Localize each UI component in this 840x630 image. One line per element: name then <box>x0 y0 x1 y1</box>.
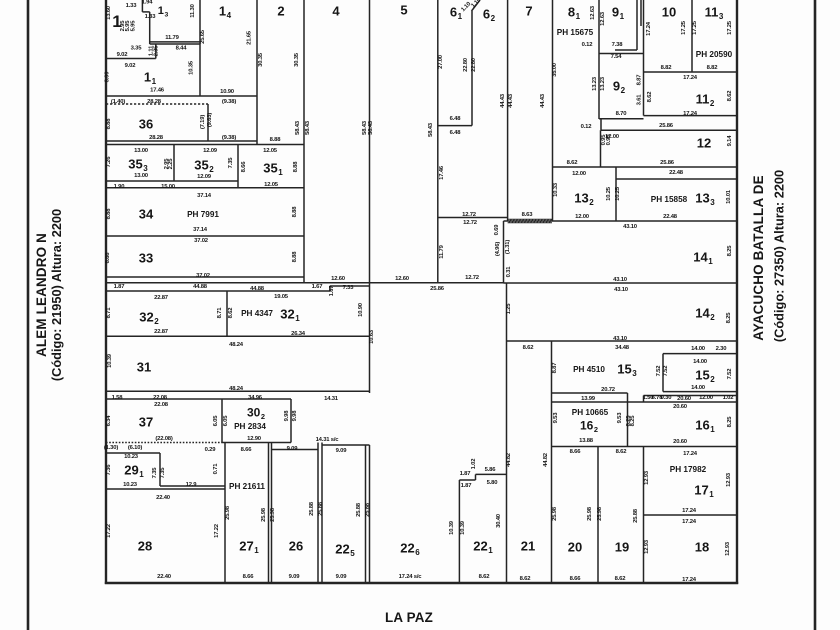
lot line 15_3 bottom <box>552 392 628 394</box>
lot line 9.02 <box>106 58 156 60</box>
svg-text:7.52: 7.52 <box>656 365 662 377</box>
svg-text:8.25: 8.25 <box>630 415 636 427</box>
svg-text:17.24: 17.24 <box>682 519 697 525</box>
svg-text:12.93: 12.93 <box>644 470 650 485</box>
svg-text:13.23: 13.23 <box>600 76 606 91</box>
svg-text:25.88: 25.88 <box>633 508 639 523</box>
svg-text:17.24: 17.24 <box>682 577 697 583</box>
svg-text:13.23: 13.23 <box>592 76 598 91</box>
lot line 35_2/35_1 v <box>237 145 239 189</box>
svg-text:10.23: 10.23 <box>124 454 139 460</box>
svg-text:12.93: 12.93 <box>726 472 732 487</box>
svg-text:8.00: 8.00 <box>105 71 111 83</box>
lot line 27/26 v b <box>271 443 273 584</box>
svg-text:8.88: 8.88 <box>270 137 282 143</box>
lot line 19/18 v <box>643 447 645 584</box>
svg-text:17.25: 17.25 <box>692 20 698 35</box>
svg-text:12.72: 12.72 <box>462 212 477 218</box>
lot line 13_3 top <box>616 178 737 180</box>
lot line 11.79 <box>150 41 200 43</box>
svg-text:12.60: 12.60 <box>395 276 410 282</box>
svg-text:5.80: 5.80 <box>487 480 499 486</box>
svg-text:8.88: 8.88 <box>106 118 112 130</box>
svg-text:12.90: 12.90 <box>247 436 262 442</box>
svg-text:2: 2 <box>277 4 284 19</box>
svg-text:58.43: 58.43 <box>368 120 374 135</box>
svg-text:10.35: 10.35 <box>189 60 195 75</box>
svg-text:8.88: 8.88 <box>292 206 298 218</box>
svg-text:8.63: 8.63 <box>522 212 534 218</box>
lot line 37 bottom dotted <box>106 442 222 444</box>
svg-text:(4.96): (4.96) <box>495 242 501 256</box>
svg-text:9.98: 9.98 <box>284 410 290 422</box>
lot line 12.72 h <box>438 217 508 219</box>
svg-text:8.25: 8.25 <box>726 312 732 324</box>
svg-text:8.62: 8.62 <box>616 449 628 455</box>
svg-text:0.30: 0.30 <box>661 395 673 401</box>
svg-text:0.29: 0.29 <box>205 447 217 453</box>
svg-text:8.62: 8.62 <box>727 90 733 102</box>
svg-text:7.26: 7.26 <box>106 156 112 168</box>
svg-text:37.02: 37.02 <box>196 273 211 279</box>
lot line 16_1 sliver top <box>644 395 738 397</box>
svg-text:12.9: 12.9 <box>186 482 198 488</box>
svg-text:1.90: 1.90 <box>114 184 126 190</box>
lot line sliver bottom right <box>330 285 370 287</box>
svg-text:1.33: 1.33 <box>145 14 157 20</box>
svg-text:(Código: 21950) Altura: 2200: (Código: 21950) Altura: 2200 <box>49 209 64 381</box>
svg-text:12.93: 12.93 <box>725 541 731 556</box>
svg-text:AYACUCHO BATALLA DE: AYACUCHO BATALLA DE <box>751 175 766 341</box>
svg-text:8.66: 8.66 <box>241 447 253 453</box>
lot line 10/11 v <box>691 0 693 72</box>
svg-text:12.60: 12.60 <box>331 276 346 282</box>
lot line 37 top <box>106 398 291 400</box>
svg-text:9.09: 9.09 <box>289 574 301 580</box>
svg-text:9.53: 9.53 <box>617 412 623 424</box>
svg-text:17.24 s/c: 17.24 s/c <box>399 574 423 580</box>
lot line 33 bottom <box>106 276 304 278</box>
svg-text:PH 4510: PH 4510 <box>573 365 605 374</box>
svg-text:22.08: 22.08 <box>153 395 168 401</box>
svg-text:25.98: 25.98 <box>597 506 603 521</box>
svg-text:8.88: 8.88 <box>292 251 298 263</box>
lot line 28/27 v <box>224 443 226 584</box>
lot line 2/4 v <box>303 0 305 283</box>
lot line 28 top <box>106 488 225 490</box>
svg-text:1.02: 1.02 <box>471 458 477 470</box>
lot line 37/30_2 v <box>221 399 223 443</box>
lot line 20/19 v <box>597 447 599 584</box>
svg-text:17.22: 17.22 <box>106 523 112 538</box>
svg-text:25.98: 25.98 <box>270 507 276 522</box>
svg-text:7.35: 7.35 <box>228 157 234 169</box>
lot line 13 bottom / 14_1 top <box>504 220 738 222</box>
svg-text:8.62: 8.62 <box>523 345 535 351</box>
lot line 12.9 h <box>160 485 225 487</box>
svg-text:35.00: 35.00 <box>552 62 558 77</box>
svg-text:8.25: 8.25 <box>727 416 733 428</box>
svg-text:30.35: 30.35 <box>258 52 264 67</box>
svg-text:0.12: 0.12 <box>581 124 593 130</box>
svg-text:8.25: 8.25 <box>727 245 733 257</box>
lot line 17_1/18 h <box>644 514 738 516</box>
svg-text:25.98: 25.98 <box>587 506 593 521</box>
svg-text:PH 7991: PH 7991 <box>187 210 219 219</box>
svg-text:(9.63): (9.63) <box>207 113 213 127</box>
svg-text:(1.31): (1.31) <box>505 240 511 254</box>
svg-text:25.98: 25.98 <box>225 505 231 520</box>
svg-text:37: 37 <box>139 415 153 430</box>
lot line 6_2/7 v <box>507 0 509 221</box>
svg-text:(22.08): (22.08) <box>155 436 173 442</box>
svg-text:2.35: 2.35 <box>154 45 160 57</box>
lot line corridor v short <box>643 396 645 403</box>
svg-text:6.05: 6.05 <box>213 415 219 427</box>
svg-text:10.39: 10.39 <box>107 353 113 368</box>
svg-text:7.35: 7.35 <box>152 467 158 479</box>
block border bottom <box>105 582 738 585</box>
svg-text:25.86: 25.86 <box>430 286 445 292</box>
lot line 13_2/13_3 v <box>615 167 617 221</box>
svg-text:8.82: 8.82 <box>661 65 673 71</box>
svg-text:0.31: 0.31 <box>506 266 512 278</box>
svg-text:48.24: 48.24 <box>229 342 244 348</box>
svg-text:1.25: 1.25 <box>506 303 512 315</box>
svg-text:37.14: 37.14 <box>193 227 208 233</box>
svg-text:25.86: 25.86 <box>659 123 674 129</box>
svg-text:12.00: 12.00 <box>605 134 620 140</box>
lot line 6 diagonal <box>472 0 481 11</box>
svg-text:33: 33 <box>139 251 153 266</box>
svg-text:1.87: 1.87 <box>461 483 473 489</box>
lot line parcel 1 step v <box>141 0 143 12</box>
lot line parcel 12 left v <box>600 130 602 167</box>
svg-text:14.00: 14.00 <box>693 359 708 365</box>
lot line 11_2 bottom <box>644 115 738 117</box>
svg-text:5: 5 <box>400 3 407 18</box>
svg-text:26.34: 26.34 <box>291 331 306 337</box>
lot line 11_2 top <box>644 71 738 73</box>
lot line 22_5/22_6 v a <box>365 445 367 583</box>
lot line parcel 36 right <box>207 104 209 141</box>
svg-text:17.25: 17.25 <box>727 20 733 35</box>
svg-text:17.24: 17.24 <box>682 508 697 514</box>
svg-text:10.63: 10.63 <box>369 329 375 344</box>
svg-text:8.88: 8.88 <box>293 161 299 173</box>
svg-text:1.87: 1.87 <box>460 471 472 477</box>
svg-text:48.24: 48.24 <box>229 386 244 392</box>
lot line parcel 1/1_3 v <box>149 12 151 44</box>
svg-text:7.35: 7.35 <box>160 467 166 479</box>
svg-text:9.09: 9.09 <box>287 446 299 452</box>
lot line 32 bottom / 31 top <box>106 335 370 337</box>
svg-text:7.52: 7.52 <box>663 365 669 377</box>
svg-text:17.24: 17.24 <box>683 111 698 117</box>
lot line 30_2 bottom <box>222 442 291 444</box>
lot line 15_2 left v <box>662 354 664 392</box>
svg-text:30.40: 30.40 <box>496 513 502 528</box>
svg-text:8.44: 8.44 <box>176 46 188 52</box>
svg-text:25.98: 25.98 <box>552 506 558 521</box>
svg-text:7.36: 7.36 <box>106 464 112 476</box>
lot line 22/21 v <box>506 283 508 583</box>
svg-text:10.39: 10.39 <box>460 520 466 535</box>
lot line 1_4/2 v <box>256 0 258 145</box>
svg-text:17.25: 17.25 <box>681 20 687 35</box>
svg-text:(1.30): (1.30) <box>104 445 118 451</box>
svg-text:5.86: 5.86 <box>485 467 497 473</box>
lot line 35 bottom left <box>106 180 238 182</box>
lot line 22_4/22_1 v <box>458 480 460 583</box>
svg-text:10.90: 10.90 <box>358 302 364 317</box>
svg-text:8.66: 8.66 <box>243 574 255 580</box>
svg-text:20.60: 20.60 <box>673 404 688 410</box>
svg-text:22.48: 22.48 <box>663 214 678 220</box>
svg-text:37.14: 37.14 <box>197 193 212 199</box>
svg-text:0.12: 0.12 <box>582 42 594 48</box>
svg-text:14.31 s/c: 14.31 s/c <box>316 437 340 443</box>
svg-text:20.60: 20.60 <box>673 439 688 445</box>
svg-text:14.31: 14.31 <box>324 396 339 402</box>
svg-text:6.48: 6.48 <box>450 130 462 136</box>
svg-text:12.05: 12.05 <box>263 148 278 154</box>
svg-text:12.72: 12.72 <box>463 220 478 226</box>
lot line corridor v <box>640 0 642 26</box>
svg-text:6.48: 6.48 <box>450 116 462 122</box>
svg-text:12.72: 12.72 <box>465 275 480 281</box>
street line right <box>814 0 817 630</box>
svg-text:20: 20 <box>568 540 582 555</box>
lot line parcel 36 top <box>106 103 208 105</box>
svg-text:34.48: 34.48 <box>615 345 630 351</box>
svg-text:58.43: 58.43 <box>295 120 301 135</box>
svg-text:7.52: 7.52 <box>727 368 733 380</box>
svg-text:PH 15858: PH 15858 <box>651 195 688 204</box>
lot line 6.48 jog <box>438 125 472 127</box>
lot line notch h low <box>459 479 475 481</box>
svg-text:12.63: 12.63 <box>600 11 606 26</box>
svg-text:22.48: 22.48 <box>669 170 684 176</box>
svg-text:44.88: 44.88 <box>193 284 208 290</box>
svg-text:12.93: 12.93 <box>644 539 650 554</box>
svg-text:7.38: 7.38 <box>612 42 624 48</box>
svg-text:(9.38): (9.38) <box>222 99 236 105</box>
svg-text:22.40: 22.40 <box>157 574 172 580</box>
lot line sliver top <box>106 282 504 284</box>
svg-text:43.10: 43.10 <box>623 224 638 230</box>
svg-text:(7.19): (7.19) <box>200 115 206 129</box>
svg-text:25.65: 25.65 <box>200 29 206 44</box>
lot line sliver bottom left <box>106 290 330 292</box>
svg-text:36: 36 <box>139 117 153 132</box>
lot line 7.38 step <box>615 49 637 51</box>
lot line 34 bottom <box>106 235 304 237</box>
lot line sliver jog v <box>329 286 331 291</box>
svg-text:25.88: 25.88 <box>318 501 324 516</box>
svg-text:44.82: 44.82 <box>543 452 549 467</box>
lot line jog v <box>155 44 157 59</box>
svg-text:1.67: 1.67 <box>329 285 335 297</box>
svg-text:17.24: 17.24 <box>646 21 652 36</box>
svg-text:(9.38): (9.38) <box>222 135 236 141</box>
svg-text:25.88: 25.88 <box>365 502 371 517</box>
lot line parcel 12 bottom <box>553 166 738 168</box>
svg-text:0.71: 0.71 <box>213 463 219 475</box>
svg-text:58.43: 58.43 <box>428 122 434 137</box>
svg-text:12.00: 12.00 <box>572 171 587 177</box>
svg-text:28: 28 <box>138 539 152 554</box>
svg-text:26: 26 <box>289 539 303 554</box>
svg-text:9.14: 9.14 <box>727 135 733 147</box>
svg-text:PH 21611: PH 21611 <box>229 482 265 491</box>
svg-text:12.05: 12.05 <box>264 182 279 188</box>
svg-text:12.09: 12.09 <box>197 174 212 180</box>
lot line notch h high <box>476 473 507 475</box>
svg-text:21: 21 <box>521 539 535 554</box>
lot line parcel 12 top <box>601 129 737 131</box>
svg-text:8.66: 8.66 <box>570 449 582 455</box>
svg-text:25.98: 25.98 <box>261 507 267 522</box>
svg-text:44.88: 44.88 <box>250 286 265 292</box>
svg-text:43.10: 43.10 <box>613 277 628 283</box>
svg-text:10.33: 10.33 <box>553 182 559 197</box>
svg-text:43.10: 43.10 <box>614 287 629 293</box>
svg-text:9.09: 9.09 <box>336 574 348 580</box>
lot line 29_1 right v <box>159 453 161 486</box>
svg-text:27.00: 27.00 <box>438 54 444 69</box>
lot line 9_2 right v <box>643 0 645 116</box>
svg-text:8.88: 8.88 <box>105 252 111 264</box>
svg-text:31: 31 <box>137 360 151 375</box>
svg-text:17.46: 17.46 <box>150 88 165 94</box>
svg-text:44.82: 44.82 <box>506 452 512 467</box>
svg-text:13.00: 13.00 <box>134 148 149 154</box>
svg-text:8.71: 8.71 <box>217 307 223 319</box>
lot line parcel 1 step h <box>142 11 149 13</box>
svg-text:10.90: 10.90 <box>220 89 235 95</box>
lot line parcel 36 bottom <box>106 140 257 142</box>
svg-text:4: 4 <box>332 4 340 19</box>
svg-text:8.62: 8.62 <box>615 576 627 582</box>
lot line 4/5 v <box>369 0 371 393</box>
lot line 29_1 top <box>106 452 160 454</box>
svg-text:8.88: 8.88 <box>106 208 112 220</box>
lot line 7/8 v <box>552 0 554 221</box>
svg-text:(Código: 27350) Altura: 2200: (Código: 27350) Altura: 2200 <box>772 170 787 342</box>
svg-text:18: 18 <box>695 540 709 555</box>
svg-text:25.88: 25.88 <box>309 501 315 516</box>
svg-text:17.24: 17.24 <box>683 451 698 457</box>
lot line 27/26 v a <box>268 443 270 584</box>
svg-text:12: 12 <box>697 136 711 151</box>
lot line 22_5/22_6 v b <box>369 445 371 583</box>
lot line 8.44 <box>150 43 200 45</box>
svg-text:44.43: 44.43 <box>500 93 506 108</box>
lot line 15_2 bottom <box>663 391 737 393</box>
svg-text:10.01: 10.01 <box>726 189 732 204</box>
svg-text:ALEM LEANDRO N: ALEM LEANDRO N <box>34 233 49 357</box>
svg-text:10: 10 <box>662 5 676 20</box>
lot line row35 top <box>106 144 304 146</box>
lot line parcel 1_1 bottom <box>106 95 257 97</box>
svg-text:8.62: 8.62 <box>228 307 234 319</box>
svg-text:10.23: 10.23 <box>123 482 138 488</box>
svg-text:13.00: 13.00 <box>134 173 149 179</box>
svg-text:20.72: 20.72 <box>601 387 616 393</box>
lot line 31 bottom <box>106 390 370 392</box>
svg-text:43.10: 43.10 <box>613 336 628 342</box>
svg-text:8.82: 8.82 <box>707 65 719 71</box>
svg-text:9.02: 9.02 <box>117 52 129 58</box>
svg-text:11.79: 11.79 <box>165 35 179 41</box>
svg-text:22.08: 22.08 <box>154 402 169 408</box>
svg-text:PH 15675: PH 15675 <box>557 28 594 37</box>
lot line jog v 14_1 left <box>503 221 505 283</box>
lot line 30_2 right v <box>290 399 292 443</box>
lot line step v <box>600 119 602 131</box>
lot line 21/20 v <box>551 341 553 583</box>
svg-text:8.87: 8.87 <box>637 74 643 86</box>
svg-text:0.69: 0.69 <box>494 224 500 236</box>
svg-text:LA PAZ: LA PAZ <box>385 610 433 625</box>
svg-text:PH 17982: PH 17982 <box>670 465 707 474</box>
svg-text:11.79: 11.79 <box>439 244 445 258</box>
svg-text:10.39: 10.39 <box>449 520 455 535</box>
svg-text:28.28: 28.28 <box>147 99 162 105</box>
svg-text:8.87: 8.87 <box>552 362 558 374</box>
svg-text:13.99: 13.99 <box>581 396 596 402</box>
lot line 16 bottom <box>552 446 738 448</box>
svg-text:12.63: 12.63 <box>590 5 596 20</box>
svg-text:34.96: 34.96 <box>248 395 263 401</box>
svg-text:(1.40): (1.40) <box>111 99 125 105</box>
svg-text:6.34: 6.34 <box>106 415 112 427</box>
lot line 7.54 step <box>599 53 644 55</box>
svg-text:9.02: 9.02 <box>125 63 137 69</box>
svg-text:9.09: 9.09 <box>336 448 348 454</box>
svg-text:(6.10): (6.10) <box>128 445 142 451</box>
svg-text:1.94: 1.94 <box>142 0 154 6</box>
svg-text:12.09: 12.09 <box>203 148 218 154</box>
lot line 8/9 v <box>598 0 600 119</box>
lot line 32_2/32_1 v <box>226 291 228 336</box>
svg-text:1.02: 1.02 <box>723 395 735 401</box>
svg-text:8.62: 8.62 <box>567 160 579 166</box>
lot line 14_2 bottom <box>507 340 738 342</box>
svg-text:37.02: 37.02 <box>194 238 209 244</box>
svg-text:3.61: 3.61 <box>637 94 643 106</box>
svg-text:44.43: 44.43 <box>540 93 546 108</box>
svg-text:22.87: 22.87 <box>154 329 169 335</box>
svg-text:20.60: 20.60 <box>677 396 692 402</box>
svg-text:17.46: 17.46 <box>439 165 445 180</box>
svg-text:2.25: 2.25 <box>168 158 174 170</box>
svg-text:8.70: 8.70 <box>616 111 628 117</box>
svg-text:9.98: 9.98 <box>292 410 298 422</box>
svg-text:8.71: 8.71 <box>106 307 112 319</box>
svg-text:28.28: 28.28 <box>149 135 164 141</box>
svg-text:21.65: 21.65 <box>247 30 253 45</box>
lot line 16 top <box>552 401 738 403</box>
svg-text:17.22: 17.22 <box>214 523 220 538</box>
block border left <box>105 0 107 584</box>
svg-text:25.88: 25.88 <box>356 502 362 517</box>
svg-text:22.87: 22.87 <box>154 295 169 301</box>
svg-text:2.30: 2.30 <box>716 346 728 352</box>
svg-text:PH 2834: PH 2834 <box>234 422 266 431</box>
svg-text:9.53: 9.53 <box>553 412 559 424</box>
